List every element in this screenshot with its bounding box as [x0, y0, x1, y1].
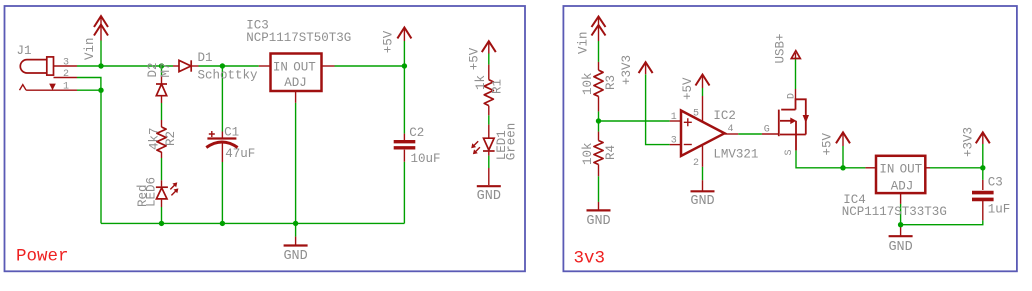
svg-text:C2: C2 — [409, 126, 424, 140]
svg-text:+5V: +5V — [681, 77, 695, 100]
svg-text:2: 2 — [693, 158, 699, 169]
svg-text:USB+: USB+ — [773, 33, 787, 63]
svg-text:R2: R2 — [164, 131, 178, 146]
svg-text:IC2: IC2 — [713, 109, 736, 123]
svg-text:LMV321: LMV321 — [713, 148, 758, 162]
svg-text:3: 3 — [63, 57, 69, 68]
svg-text:OUT: OUT — [293, 60, 316, 74]
svg-text:47uF: 47uF — [225, 147, 255, 161]
svg-text:Green: Green — [505, 123, 519, 161]
svg-text:+3V3: +3V3 — [962, 127, 976, 157]
svg-text:D1: D1 — [198, 51, 213, 65]
svg-text:Power: Power — [16, 247, 69, 267]
svg-text:GND: GND — [283, 249, 307, 264]
svg-text:1uF: 1uF — [988, 203, 1011, 217]
svg-text:C1: C1 — [224, 125, 239, 139]
svg-text:+3V3: +3V3 — [620, 55, 634, 85]
svg-text:GND: GND — [477, 189, 501, 204]
svg-text:R3: R3 — [604, 75, 618, 90]
svg-text:1k: 1k — [474, 75, 488, 90]
svg-text:+5V: +5V — [382, 30, 396, 53]
svg-text:D: D — [787, 93, 798, 99]
svg-text:+5V: +5V — [468, 47, 482, 70]
svg-text:4: 4 — [728, 124, 734, 135]
svg-text:M7: M7 — [159, 62, 173, 77]
svg-text:R1: R1 — [491, 79, 505, 94]
svg-text:R4: R4 — [604, 145, 618, 160]
svg-text:D2: D2 — [146, 62, 160, 77]
svg-text:1: 1 — [671, 112, 677, 123]
svg-text:Schottky: Schottky — [198, 69, 259, 83]
svg-text:IN: IN — [879, 163, 894, 177]
svg-text:LED6: LED6 — [145, 177, 159, 207]
svg-text:GND: GND — [690, 194, 714, 209]
svg-text:J1: J1 — [17, 44, 32, 58]
svg-text:NCP1117ST33T3G: NCP1117ST33T3G — [842, 205, 947, 219]
svg-text:10uF: 10uF — [411, 152, 441, 166]
svg-text:4k7: 4k7 — [148, 127, 162, 150]
svg-text:G: G — [764, 125, 770, 136]
svg-text:Vin: Vin — [577, 31, 591, 54]
svg-text:IN: IN — [273, 60, 288, 74]
svg-text:10k: 10k — [581, 142, 595, 165]
svg-text:ADJ: ADJ — [891, 180, 914, 194]
svg-text:OUT: OUT — [900, 163, 923, 177]
svg-text:ADJ: ADJ — [284, 76, 307, 90]
svg-text:GND: GND — [586, 214, 610, 229]
svg-text:+5V: +5V — [821, 132, 835, 155]
svg-text:Vin: Vin — [83, 37, 97, 60]
svg-text:10k: 10k — [581, 72, 595, 95]
svg-text:5: 5 — [693, 109, 699, 120]
svg-text:GND: GND — [888, 240, 912, 255]
svg-text:3: 3 — [671, 135, 677, 146]
svg-text:2: 2 — [63, 69, 69, 80]
svg-text:S: S — [784, 149, 795, 155]
svg-text:1: 1 — [63, 81, 69, 92]
svg-text:C3: C3 — [988, 176, 1003, 190]
svg-text:3v3: 3v3 — [574, 249, 606, 269]
svg-text:NCP1117ST50T3G: NCP1117ST50T3G — [246, 31, 351, 45]
